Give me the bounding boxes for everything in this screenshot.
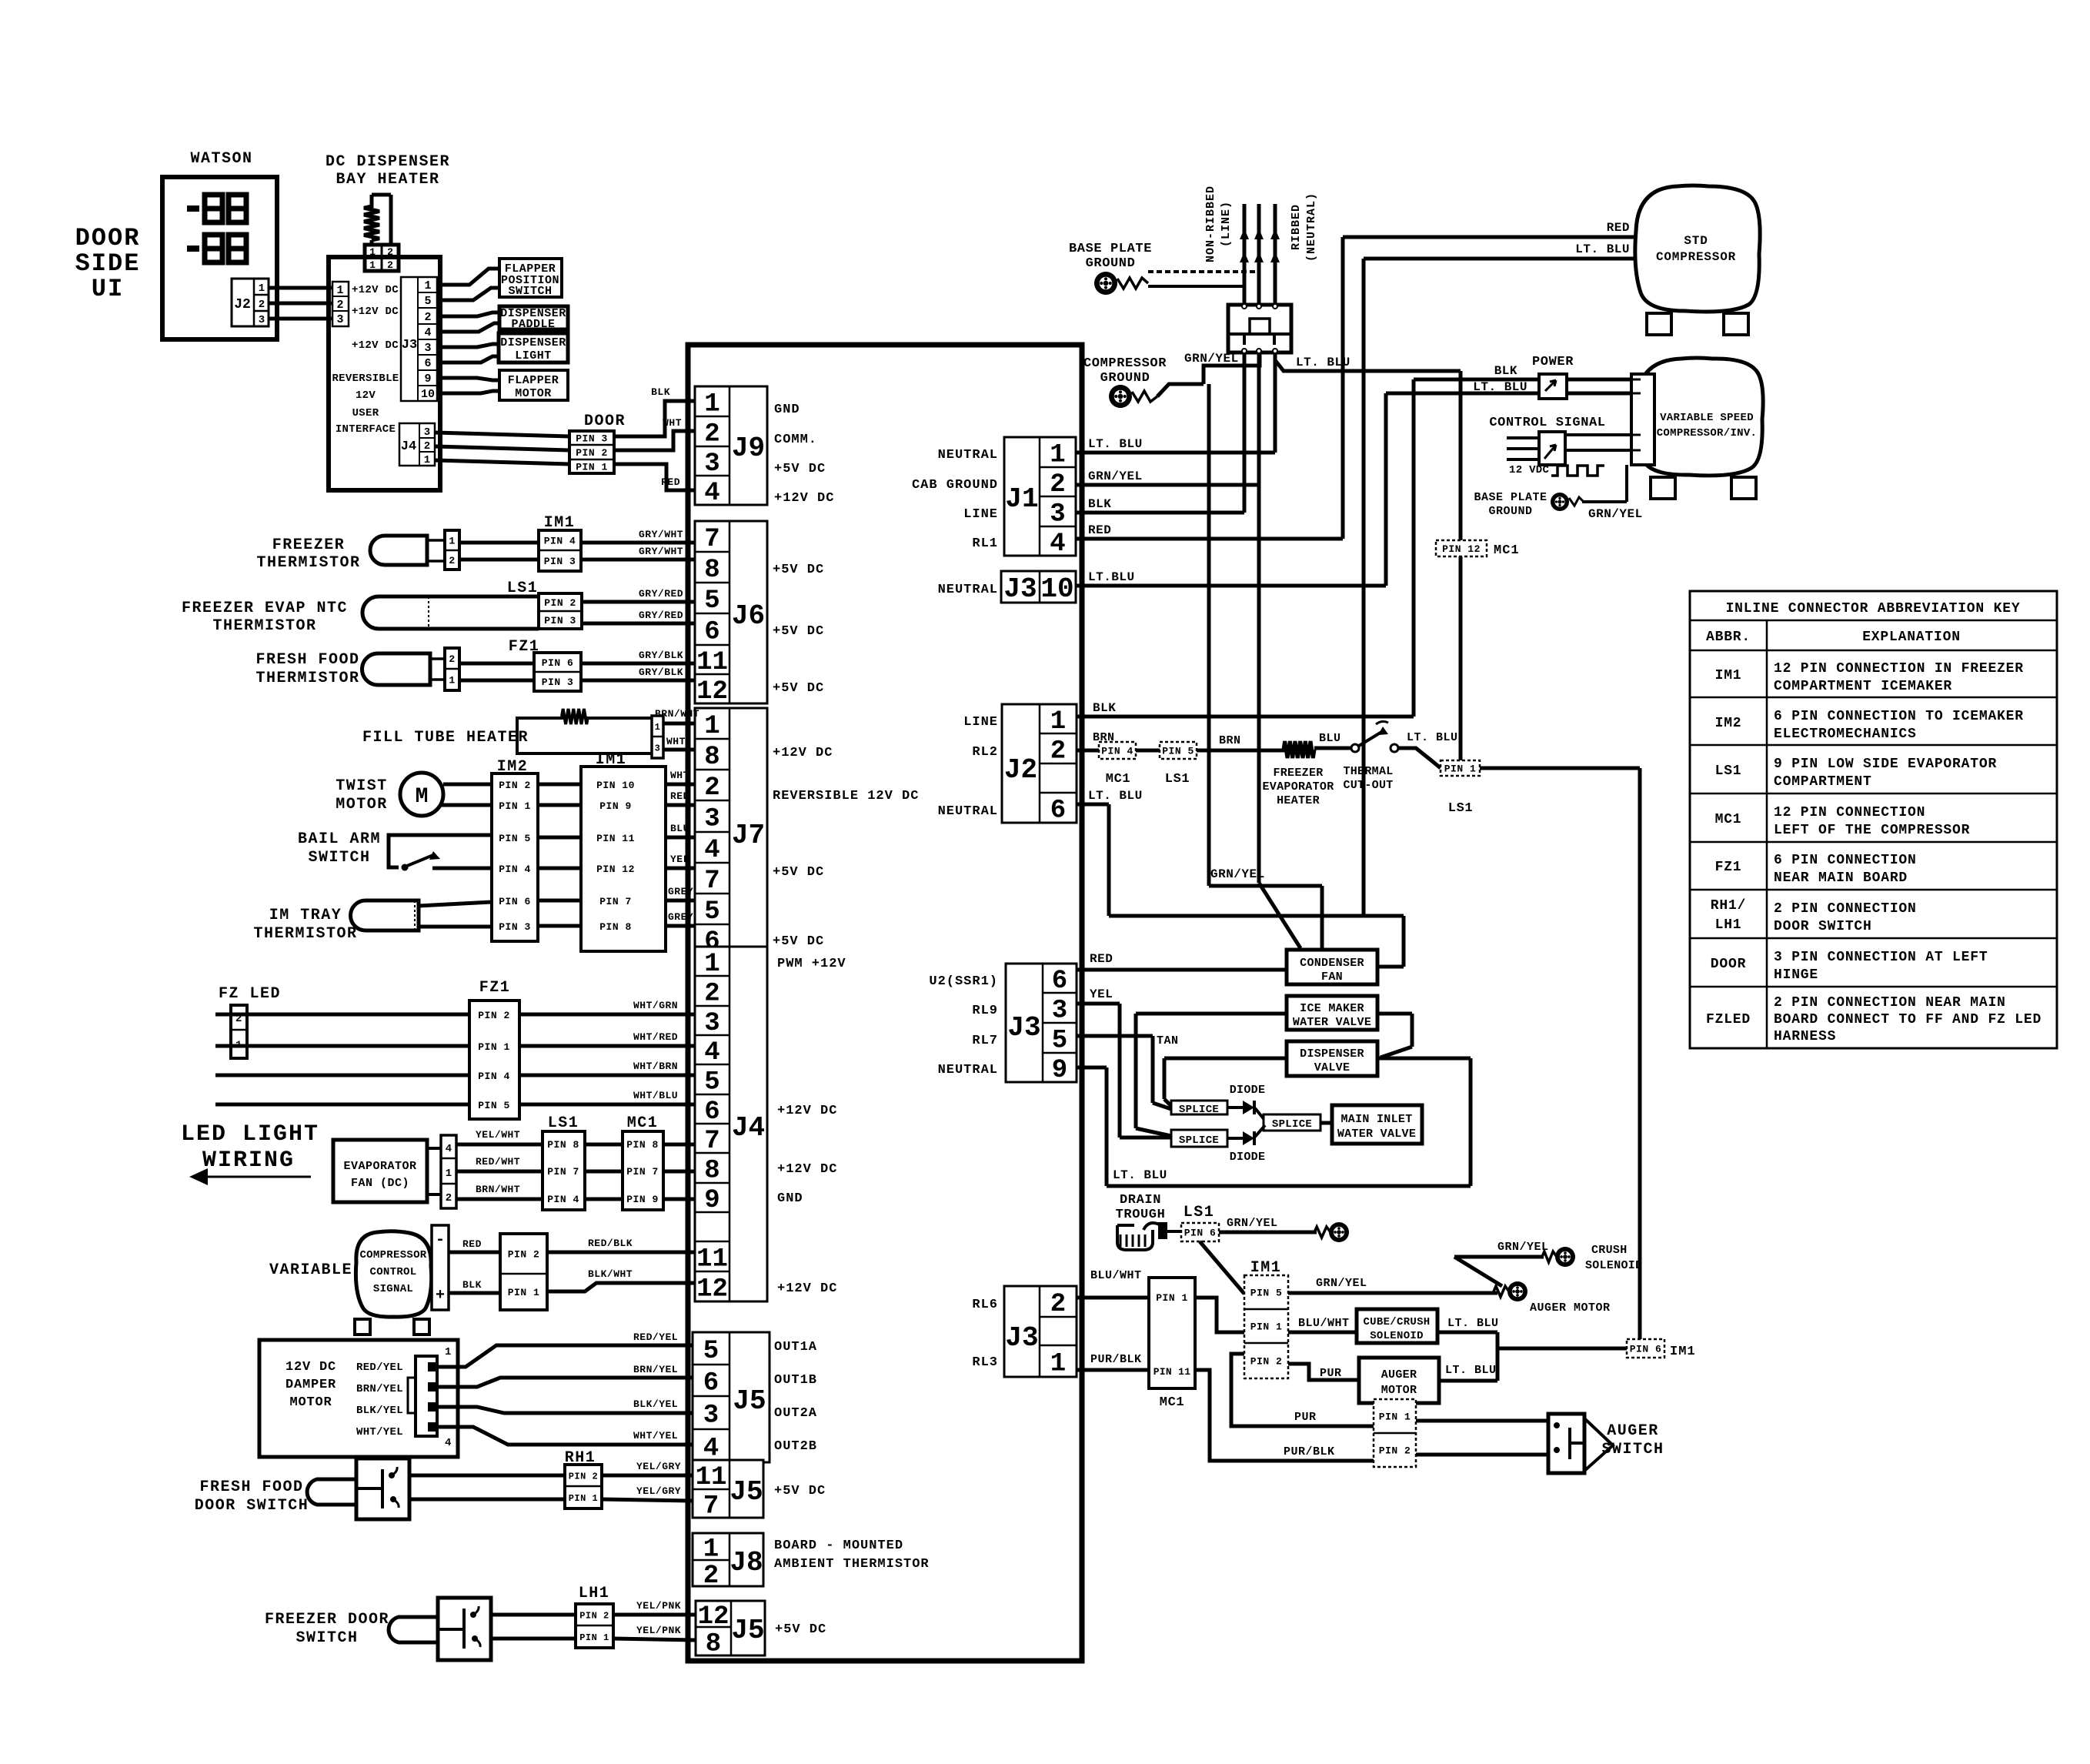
svg-text:PIN 1: PIN 1 bbox=[569, 1493, 599, 1504]
wire RED control- to PIN2 bbox=[449, 1251, 500, 1255]
wire J2-1 to UI pin1 bbox=[269, 286, 332, 290]
svg-text:BLU/WHT: BLU/WHT bbox=[1090, 1269, 1142, 1282]
svg-text:THERMISTOR: THERMISTOR bbox=[253, 925, 357, 943]
svg-text:PIN 1: PIN 1 bbox=[508, 1287, 540, 1298]
connector LS1 PIN 6 drain bbox=[1181, 1223, 1219, 1241]
svg-text:MC1: MC1 bbox=[1106, 772, 1130, 787]
heater FILL TUBE HEATER with coil bbox=[517, 709, 652, 753]
svg-text:GROUND: GROUND bbox=[1100, 371, 1150, 386]
svg-text:AUGER: AUGER bbox=[1607, 1422, 1659, 1440]
wire UI J4-3 to DOOR PIN3 bbox=[435, 433, 569, 436]
label COMPRESSOR GROUND bbox=[1083, 356, 1167, 386]
svg-text:HINGE: HINGE bbox=[1774, 967, 1818, 983]
svg-text:4: 4 bbox=[445, 1437, 451, 1449]
wire BLK/WHT PIN1 to J4-12 bbox=[547, 1283, 695, 1291]
svg-text:PIN 4: PIN 4 bbox=[1101, 746, 1133, 757]
switch LH1 freezer door switch bbox=[438, 1598, 491, 1660]
svg-text:THERMISTOR: THERMISTOR bbox=[256, 554, 360, 572]
wire junction pin3 to J1-1 vertical bbox=[1274, 352, 1277, 453]
wire PUR/BLK J3-1 to MC1 PIN11 bbox=[1077, 1368, 1149, 1372]
wire PIN4 to PIN5 bbox=[1136, 749, 1160, 753]
svg-text:12: 12 bbox=[696, 677, 728, 707]
svg-text:AMBIENT THERMISTOR: AMBIENT THERMISTOR bbox=[774, 1557, 930, 1572]
svg-text:PIN 2: PIN 2 bbox=[576, 447, 608, 459]
svg-text:GRN/YEL: GRN/YEL bbox=[1184, 352, 1239, 366]
svg-text:DOOR SWITCH: DOOR SWITCH bbox=[1774, 919, 1872, 934]
label FREEZER EVAP NTC THERMISTOR bbox=[182, 600, 348, 635]
svg-text:REVERSIBLE: REVERSIBLE bbox=[332, 373, 399, 385]
connector 1-2 bay heater on UI box bbox=[365, 245, 399, 271]
wire switch to RH1 PIN1 bbox=[409, 1498, 565, 1502]
connector UI input pins 1-2-3 bbox=[332, 282, 349, 326]
svg-text:1: 1 bbox=[655, 722, 661, 733]
svg-text:10: 10 bbox=[1040, 573, 1073, 605]
ring terminal drain ground bbox=[1329, 1222, 1349, 1242]
svg-text:LS1: LS1 bbox=[507, 580, 539, 597]
power plug connector symbol bbox=[1539, 374, 1567, 399]
svg-text:PIN 6: PIN 6 bbox=[1184, 1228, 1217, 1239]
svg-text:1: 1 bbox=[704, 950, 719, 979]
wire PUR IM1 PIN2 to auger motor bbox=[1288, 1364, 1359, 1380]
svg-text:2 PIN CONNECTION NEAR MAIN: 2 PIN CONNECTION NEAR MAIN bbox=[1774, 995, 2006, 1011]
svg-text:8: 8 bbox=[704, 556, 719, 585]
svg-text:YEL: YEL bbox=[1090, 987, 1113, 1001]
svg-text:11: 11 bbox=[696, 1463, 727, 1492]
svg-text:PIN 8: PIN 8 bbox=[547, 1139, 579, 1151]
connector IM1 icemaker bbox=[581, 767, 666, 951]
svg-text:FAN (DC): FAN (DC) bbox=[351, 1177, 409, 1190]
label CRUSH SOLENOID bbox=[1585, 1244, 1642, 1272]
svg-text:REVERSIBLE 12V DC: REVERSIBLE 12V DC bbox=[773, 789, 919, 803]
wire power cord neutral with arrows bbox=[1270, 204, 1280, 305]
connector DOOR pins bbox=[569, 431, 614, 473]
wire GRY/WHT IM1-PIN4 to J6-7 bbox=[581, 541, 695, 545]
wire BLK control+ to PIN1 bbox=[449, 1291, 500, 1295]
wire BLK J2-1 label done above; wire BRN J2-2 to PIN4 bbox=[1077, 749, 1099, 753]
svg-text:YEL/PNK: YEL/PNK bbox=[636, 1600, 681, 1612]
svg-text:ABBR.: ABBR. bbox=[1706, 630, 1751, 645]
svg-text:LT. BLU: LT. BLU bbox=[1407, 731, 1458, 744]
svg-text:GROUND: GROUND bbox=[1086, 256, 1136, 271]
wire GRY/BLK FZ1-PIN3 to J6-12 bbox=[581, 679, 695, 683]
svg-text:PIN 2: PIN 2 bbox=[508, 1249, 540, 1261]
wire UI J3-9 to flapper motor bbox=[437, 378, 499, 380]
wires IM2 to IM1 six lines bbox=[538, 784, 581, 926]
box ICE MAKER WATER VALVE bbox=[1287, 996, 1377, 1030]
label FRESH FOOD DOOR SWITCH bbox=[195, 1478, 309, 1515]
svg-text:FREEZER DOOR: FREEZER DOOR bbox=[265, 1611, 389, 1629]
svg-text:STD: STD bbox=[1684, 234, 1708, 248]
connector J9 bbox=[695, 386, 767, 508]
svg-text:MC1: MC1 bbox=[1494, 543, 1520, 558]
connector IM1 PIN 6 bbox=[1627, 1339, 1664, 1358]
svg-text:DIODE: DIODE bbox=[1230, 1151, 1266, 1164]
svg-text:PUR: PUR bbox=[1294, 1411, 1317, 1424]
box 12V DC DAMPER MOTOR bbox=[259, 1340, 458, 1457]
svg-text:6: 6 bbox=[704, 618, 719, 647]
svg-text:LED LIGHT: LED LIGHT bbox=[181, 1121, 319, 1148]
connector control PIN2 PIN1 bbox=[500, 1234, 547, 1310]
label DRAIN TROUGH bbox=[1116, 1193, 1166, 1222]
svg-text:+12V DC: +12V DC bbox=[352, 284, 399, 296]
crimp compressor ground bbox=[1132, 391, 1157, 402]
wire PUR/BLK MC1 PIN11 to auger switch PIN2 bbox=[1195, 1370, 1374, 1461]
heater freezer evaporator heater coil bbox=[1284, 741, 1314, 758]
svg-text:PIN 1: PIN 1 bbox=[1379, 1412, 1411, 1423]
svg-text:FZ LED: FZ LED bbox=[219, 985, 281, 1003]
svg-text:BLK/YEL: BLK/YEL bbox=[356, 1405, 403, 1417]
box CONDENSER FAN bbox=[1287, 950, 1377, 984]
connector bar inverter bbox=[1622, 374, 1654, 465]
svg-text:BRN/WHT: BRN/WHT bbox=[476, 1184, 520, 1195]
ring terminal auger motor ground bbox=[1507, 1281, 1527, 1301]
wire RED IM1-PIN9 to J7-3 bbox=[666, 803, 695, 807]
wire YEL J3-3 to lower splice bbox=[1077, 1004, 1171, 1138]
svg-text:FILL TUBE HEATER: FILL TUBE HEATER bbox=[362, 729, 529, 747]
labels J8 BOARD-MOUNTED AMBIENT THERMISTOR bbox=[774, 1538, 930, 1572]
svg-text:SIGNAL: SIGNAL bbox=[373, 1283, 413, 1295]
labels J4 PWM GND +12V bbox=[777, 957, 846, 1296]
svg-text:BLK: BLK bbox=[462, 1279, 482, 1291]
svg-text:SWITCH: SWITCH bbox=[508, 285, 552, 298]
connector J5 freezer door bbox=[696, 1601, 765, 1659]
connector J3 on UI bbox=[401, 277, 437, 401]
svg-text:COMPRESSOR: COMPRESSOR bbox=[359, 1249, 426, 1261]
connector MC1 PIN 4 bbox=[1099, 742, 1136, 759]
svg-text:PIN 2: PIN 2 bbox=[544, 597, 576, 609]
wire LT.BLU J3-10 to power connector bbox=[1076, 393, 1386, 586]
svg-text:IM TRAY: IM TRAY bbox=[269, 907, 342, 924]
svg-text:(LINE): (LINE) bbox=[1220, 201, 1233, 247]
svg-text:2: 2 bbox=[704, 773, 719, 803]
svg-text:SIDE: SIDE bbox=[75, 249, 141, 278]
svg-text:TAN: TAN bbox=[1157, 1034, 1179, 1047]
svg-text:LH1: LH1 bbox=[579, 1585, 610, 1602]
svg-text:FRESH FOOD: FRESH FOOD bbox=[255, 651, 359, 669]
svg-text:3: 3 bbox=[336, 313, 343, 326]
svg-text:12 PIN CONNECTION: 12 PIN CONNECTION bbox=[1774, 805, 1925, 820]
svg-text:PIN 2: PIN 2 bbox=[579, 1610, 609, 1621]
wire GRN/YEL crush solenoid diagonal bbox=[1454, 1257, 1544, 1286]
svg-text:SOLENOID: SOLENOID bbox=[1370, 1330, 1424, 1342]
svg-text:PIN 4: PIN 4 bbox=[478, 1071, 510, 1082]
svg-text:LS1: LS1 bbox=[1448, 801, 1473, 816]
svg-text:GRY/WHT: GRY/WHT bbox=[639, 529, 683, 540]
connector J8 bbox=[693, 1533, 763, 1591]
svg-text:+12V DC: +12V DC bbox=[777, 1281, 837, 1296]
svg-text:NEUTRAL: NEUTRAL bbox=[938, 448, 998, 463]
svg-text:WHT: WHT bbox=[670, 770, 689, 781]
wire GREY IM1-PIN7 to J7-5 bbox=[666, 899, 695, 903]
wire YEL/GRY RH1-PIN2 to J5-11 bbox=[602, 1474, 693, 1478]
svg-text:2: 2 bbox=[259, 299, 265, 311]
svg-text:J3: J3 bbox=[402, 338, 417, 352]
svg-text:(NEUTRAL): (NEUTRAL) bbox=[1305, 192, 1318, 262]
fresh food door switch bulb bbox=[307, 1479, 356, 1505]
svg-text:-: - bbox=[436, 1231, 445, 1249]
svg-text:DAMPER: DAMPER bbox=[285, 1378, 336, 1392]
connector J4 on UI bbox=[399, 423, 435, 466]
svg-text:PUR/BLK: PUR/BLK bbox=[1090, 1353, 1142, 1366]
svg-text:J3: J3 bbox=[1007, 1012, 1040, 1044]
wire UI J3-2 to dispenser paddle bbox=[437, 312, 499, 316]
wire WHT fill tube heater to J7-8 bbox=[663, 748, 695, 752]
svg-text:J1: J1 bbox=[1005, 483, 1038, 515]
svg-text:11: 11 bbox=[696, 648, 728, 677]
svg-text:3: 3 bbox=[704, 805, 719, 834]
svg-text:2: 2 bbox=[387, 259, 393, 271]
wire PUR IM1 PIN2 to auger switch PIN1 bbox=[1231, 1354, 1374, 1426]
svg-text:COMPRESSOR: COMPRESSOR bbox=[1083, 356, 1167, 371]
svg-text:GND: GND bbox=[777, 1191, 803, 1206]
svg-text:MC1: MC1 bbox=[1160, 1395, 1184, 1410]
wire BLU IM1-PIN11 to J7-4 bbox=[666, 836, 695, 840]
svg-text:5: 5 bbox=[424, 295, 431, 308]
wire BLK/YEL damper to J5-3 bbox=[439, 1407, 693, 1413]
wire switch to LH1 PIN1 bbox=[491, 1637, 576, 1641]
box EVAPORATOR FAN (DC) bbox=[333, 1140, 427, 1202]
svg-text:3: 3 bbox=[259, 314, 265, 326]
svg-text:THERMISTOR: THERMISTOR bbox=[255, 670, 359, 687]
splice upper bbox=[1171, 1101, 1227, 1116]
connector evaporator fan 4-1-2 bbox=[441, 1135, 456, 1208]
svg-text:1: 1 bbox=[336, 284, 343, 297]
svg-text:PIN 1: PIN 1 bbox=[576, 462, 608, 473]
wire base plate ground to line bbox=[1148, 285, 1244, 288]
svg-text:YEL/GRY: YEL/GRY bbox=[636, 1485, 681, 1497]
svg-text:U2(SSR1): U2(SSR1) bbox=[929, 974, 998, 989]
svg-text:PIN 1: PIN 1 bbox=[499, 800, 531, 812]
svg-text:VALVE: VALVE bbox=[1314, 1061, 1350, 1074]
svg-text:5: 5 bbox=[1052, 1027, 1067, 1056]
svg-text:J3: J3 bbox=[1005, 1322, 1038, 1354]
svg-text:2: 2 bbox=[424, 311, 431, 324]
wire GRN/YEL J1-2 bbox=[1076, 483, 1259, 487]
wire fan box to connector bbox=[427, 1147, 441, 1150]
label +12V DC x3 and REVERSIBLE 12V USER INTERFACE bbox=[332, 284, 399, 436]
svg-text:NEAR MAIN BOARD: NEAR MAIN BOARD bbox=[1774, 870, 1908, 886]
svg-text:RED/YEL: RED/YEL bbox=[356, 1361, 403, 1374]
svg-text:PIN 5: PIN 5 bbox=[1250, 1288, 1283, 1299]
svg-text:WHT/YEL: WHT/YEL bbox=[633, 1430, 678, 1442]
svg-text:J8: J8 bbox=[729, 1547, 763, 1579]
svg-text:PIN 8: PIN 8 bbox=[599, 921, 632, 933]
connector J4 bbox=[695, 947, 767, 1305]
svg-text:GRY/WHT: GRY/WHT bbox=[639, 546, 683, 557]
connector IM1 bottom pins bbox=[1244, 1275, 1288, 1378]
svg-text:HARNESS: HARNESS bbox=[1774, 1029, 1836, 1044]
svg-text:+5V DC: +5V DC bbox=[773, 934, 824, 949]
svg-text:J4: J4 bbox=[401, 439, 416, 454]
svg-text:BRN/YEL: BRN/YEL bbox=[356, 1383, 403, 1395]
svg-text:BLK: BLK bbox=[1093, 701, 1116, 715]
svg-text:GROUND: GROUND bbox=[1488, 505, 1532, 518]
svg-text:PIN 12: PIN 12 bbox=[596, 864, 635, 875]
svg-text:WATER VALVE: WATER VALVE bbox=[1293, 1016, 1371, 1029]
connector J3 RL6 RL3 bbox=[1004, 1286, 1077, 1379]
svg-text:1: 1 bbox=[424, 454, 430, 466]
svg-text:2: 2 bbox=[703, 1562, 719, 1591]
svg-text:4: 4 bbox=[704, 1038, 719, 1067]
svg-text:INTERFACE: INTERFACE bbox=[336, 423, 396, 436]
connector J7 bbox=[695, 708, 767, 957]
wire thermistor to IM1 PIN3 bbox=[459, 558, 539, 562]
svg-text:PIN 1: PIN 1 bbox=[579, 1632, 609, 1643]
wire LT. BLU J3-9 neutral return bbox=[1077, 1014, 1471, 1186]
svg-text:GRN/YEL: GRN/YEL bbox=[1210, 867, 1265, 881]
wire J2-3 to UI pin3 bbox=[269, 317, 332, 321]
svg-text:PIN 3: PIN 3 bbox=[544, 556, 576, 567]
connector FZ LED pins bbox=[231, 1005, 247, 1058]
svg-text:1: 1 bbox=[1050, 707, 1066, 737]
connector J2 bbox=[1002, 704, 1077, 826]
wire WHT DOOR PIN2 to J9-2 bbox=[614, 431, 695, 450]
switch BAIL ARM bbox=[389, 835, 492, 871]
svg-text:EVAPORATOR: EVAPORATOR bbox=[1262, 780, 1334, 793]
wire GRY/RED LS1-PIN2 to J6-5 bbox=[582, 600, 695, 604]
thermistor FREEZER EVAP NTC bulb bbox=[362, 596, 539, 629]
display U-WATSON box bbox=[162, 177, 277, 339]
svg-text:6: 6 bbox=[704, 1097, 719, 1127]
svg-text:3: 3 bbox=[1050, 500, 1065, 530]
wire BRN PIN5 to freezer evaporator heater bbox=[1197, 749, 1287, 753]
wire GRN/YEL IM1-PIN5 to auger motor ground bbox=[1288, 1291, 1497, 1295]
freezer door switch bulb bbox=[389, 1617, 438, 1642]
wire RED J1-4 to STD compressor bbox=[1076, 237, 1636, 539]
svg-text:COMPARTMENT ICEMAKER: COMPARTMENT ICEMAKER bbox=[1774, 679, 1952, 694]
svg-text:6: 6 bbox=[1050, 797, 1066, 826]
wire RED/WHT fan-1 via LS1 PIN7 MC1 PIN7 to J4-8 bbox=[456, 1170, 695, 1174]
connector auger switch PIN1 PIN2 bbox=[1374, 1399, 1416, 1467]
label 12 VDC and square wave bbox=[1509, 464, 1604, 476]
svg-text:6 PIN CONNECTION: 6 PIN CONNECTION bbox=[1774, 853, 1917, 868]
svg-text:M: M bbox=[416, 785, 429, 809]
wire IM tray thermistor to IM2 PIN3 bbox=[419, 925, 492, 929]
svg-text:BLK: BLK bbox=[651, 386, 670, 398]
svg-text:BRN/WHT: BRN/WHT bbox=[655, 708, 699, 720]
svg-text:PIN 11: PIN 11 bbox=[596, 833, 635, 844]
svg-text:5: 5 bbox=[703, 1337, 719, 1366]
svg-text:PWM +12V: PWM +12V bbox=[777, 957, 846, 971]
seven-segment digits -88 row2 bbox=[187, 235, 246, 262]
wire WHT IM1-PIN10 to J7-2 bbox=[666, 783, 695, 787]
svg-text:2: 2 bbox=[704, 980, 719, 1009]
svg-text:WHT/RED: WHT/RED bbox=[633, 1031, 678, 1043]
svg-text:3: 3 bbox=[424, 342, 431, 355]
svg-text:PADDLE: PADDLE bbox=[511, 318, 555, 331]
svg-text:RED: RED bbox=[661, 476, 680, 488]
svg-text:9 PIN LOW SIDE EVAPORATOR: 9 PIN LOW SIDE EVAPORATOR bbox=[1774, 757, 1997, 772]
svg-text:PIN 1: PIN 1 bbox=[1250, 1321, 1283, 1333]
svg-text:LINE: LINE bbox=[963, 715, 998, 730]
switch RH1 fresh food door switch bbox=[356, 1458, 409, 1519]
svg-text:YEL/GRY: YEL/GRY bbox=[636, 1461, 681, 1472]
wire GRY/RED LS1-PIN3 to J6-6 bbox=[582, 622, 695, 626]
svg-text:7: 7 bbox=[704, 525, 719, 554]
svg-text:LT. BLU: LT. BLU bbox=[1445, 1364, 1497, 1377]
svg-text:BLU: BLU bbox=[1319, 732, 1341, 745]
svg-text:8: 8 bbox=[706, 1630, 721, 1659]
svg-text:RED/WHT: RED/WHT bbox=[476, 1156, 520, 1168]
svg-text:2: 2 bbox=[704, 420, 719, 449]
svg-text:CONTROL: CONTROL bbox=[370, 1266, 417, 1278]
wire RED DOOR PIN1 to J9-4 bbox=[614, 464, 695, 490]
svg-text:PIN 7: PIN 7 bbox=[626, 1166, 659, 1178]
svg-text:PIN 9: PIN 9 bbox=[599, 800, 632, 812]
svg-text:WHT: WHT bbox=[663, 417, 682, 429]
svg-text:+12V DC: +12V DC bbox=[777, 1104, 837, 1118]
svg-text:1: 1 bbox=[369, 259, 376, 271]
diode upper bbox=[1227, 1101, 1265, 1121]
motor M twist motor bbox=[400, 773, 443, 816]
svg-text:4: 4 bbox=[424, 326, 431, 339]
wire WHT/YEL damper to J5-4 bbox=[439, 1427, 693, 1445]
wire WHT/BLU via FZ1 PIN5 to J4-6 bbox=[215, 1103, 695, 1107]
svg-text:LH1: LH1 bbox=[1715, 917, 1742, 933]
svg-text:+5V DC: +5V DC bbox=[775, 1622, 826, 1637]
label FREEZER DOOR SWITCH bbox=[265, 1611, 389, 1647]
svg-text:PIN 3: PIN 3 bbox=[542, 677, 574, 688]
svg-text:3: 3 bbox=[704, 1009, 719, 1038]
svg-text:AUGER MOTOR: AUGER MOTOR bbox=[1530, 1301, 1611, 1315]
connector J1 bbox=[1004, 437, 1076, 559]
seven-segment digits -88 row1 bbox=[187, 195, 246, 222]
svg-text:LT. BLU: LT. BLU bbox=[1575, 242, 1630, 256]
svg-text:1: 1 bbox=[449, 675, 455, 687]
svg-text:BRN: BRN bbox=[1219, 734, 1241, 747]
svg-text:J2: J2 bbox=[1004, 754, 1037, 786]
wire YEL/PNK LH1-PIN2 to J5-12 bbox=[613, 1613, 696, 1617]
svg-text:RL6: RL6 bbox=[972, 1298, 998, 1312]
svg-text:RL1: RL1 bbox=[972, 536, 998, 551]
wire UI J4-1 to DOOR PIN1 bbox=[435, 460, 569, 464]
svg-text:7: 7 bbox=[703, 1492, 719, 1522]
svg-text:NEUTRAL: NEUTRAL bbox=[938, 1063, 998, 1077]
connector LH1 PIN2 PIN1 bbox=[576, 1604, 613, 1648]
svg-text:GRY/BLK: GRY/BLK bbox=[639, 650, 683, 661]
wire switch to LH1 PIN2 bbox=[491, 1613, 576, 1617]
svg-text:IM2: IM2 bbox=[1715, 716, 1742, 731]
svg-text:ICE MAKER: ICE MAKER bbox=[1300, 1002, 1364, 1015]
wire auger PIN1 to switch bbox=[1416, 1419, 1548, 1423]
svg-text:WATER VALVE: WATER VALVE bbox=[1337, 1128, 1416, 1141]
svg-text:DOOR: DOOR bbox=[75, 224, 141, 252]
wire LT. BLU thermal cutout to LS1 PIN1 bbox=[1398, 748, 1441, 768]
label FRESH FOOD THERMISTOR bbox=[255, 651, 359, 687]
svg-text:SWITCH: SWITCH bbox=[308, 849, 370, 867]
svg-text:1: 1 bbox=[704, 712, 719, 741]
svg-text:RED: RED bbox=[1088, 523, 1111, 537]
svg-text:PIN 8: PIN 8 bbox=[626, 1139, 659, 1151]
wire LT.BLU J1-1 to junction bbox=[1076, 451, 1275, 455]
splice center bbox=[1264, 1114, 1320, 1131]
wire YEL/PNK LH1-PIN1 to J5-8 bbox=[613, 1639, 696, 1640]
svg-text:1: 1 bbox=[1050, 441, 1065, 470]
connector MC1 fan PIN8 PIN7 PIN9 bbox=[623, 1131, 663, 1210]
svg-text:1: 1 bbox=[259, 282, 265, 295]
labels RL6 RL3 bbox=[972, 1298, 998, 1370]
svg-text:SWITCH: SWITCH bbox=[295, 1629, 358, 1647]
svg-text:+5V DC: +5V DC bbox=[774, 1484, 826, 1498]
wire thermistor to FZ1 PIN3 bbox=[459, 679, 534, 683]
svg-text:3: 3 bbox=[655, 743, 661, 753]
svg-text:FZ1: FZ1 bbox=[1715, 860, 1742, 875]
svg-text:LT.BLU: LT.BLU bbox=[1088, 570, 1135, 584]
svg-text:DIODE: DIODE bbox=[1230, 1084, 1266, 1097]
wire UI J3-10 to flapper motor bbox=[437, 391, 499, 393]
svg-text:+12V DC: +12V DC bbox=[777, 1162, 837, 1177]
svg-text:PIN 10: PIN 10 bbox=[596, 780, 635, 791]
